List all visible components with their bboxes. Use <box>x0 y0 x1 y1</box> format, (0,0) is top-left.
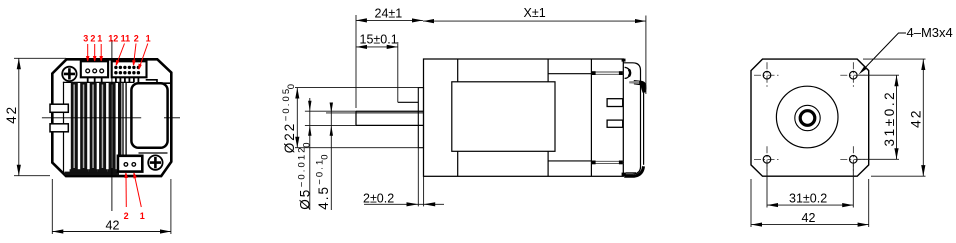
svg-text:42: 42 <box>106 219 120 233</box>
heat sink fins <box>65 82 127 175</box>
dimension 31±0.2 bottom <box>767 164 853 208</box>
motor can top/bottom lines <box>548 73 591 75</box>
dimension 24±1 <box>356 15 423 108</box>
svg-text:2: 2 <box>134 34 139 44</box>
rear cover body <box>623 63 643 174</box>
svg-text:−0.1: −0.1 <box>315 158 326 185</box>
svg-text:Ø22: Ø22 <box>282 122 297 154</box>
svg-text:0: 0 <box>286 84 297 89</box>
boss extension line continuing down <box>417 148 419 207</box>
svg-text:3: 3 <box>83 34 88 44</box>
driver cover rounded rectangle <box>131 83 167 148</box>
band end blocks <box>591 71 622 164</box>
dimension Ø22 0/-0.05 <box>296 88 298 148</box>
svg-text:31±0.2: 31±0.2 <box>882 90 897 147</box>
svg-text:−0.05: −0.05 <box>281 87 292 122</box>
hub circle <box>795 105 820 130</box>
dimension 31±0.2 vertical right <box>858 75 899 159</box>
svg-text:31±0.2: 31±0.2 <box>789 192 827 206</box>
shaft circle Ø5 <box>800 111 815 126</box>
svg-text:42: 42 <box>908 108 924 128</box>
hub diameter extension lines <box>295 88 418 148</box>
heat sink top line <box>64 81 134 83</box>
svg-text:2: 2 <box>124 211 129 221</box>
svg-text:2: 2 <box>90 34 95 44</box>
gearbox rear face line <box>457 59 459 176</box>
svg-text:42: 42 <box>802 211 816 225</box>
centerline vertical <box>111 40 113 211</box>
svg-text:24±1: 24±1 <box>375 7 403 21</box>
dimension X±1 <box>423 16 646 95</box>
svg-text:X±1: X±1 <box>524 6 546 20</box>
dimension 42 vertical (left) <box>14 58 66 175</box>
svg-text:Ø5: Ø5 <box>298 188 313 210</box>
stator lamination rectangle <box>452 82 555 152</box>
left edge tab slots <box>50 104 68 132</box>
connector J2 (12-pin) body <box>112 61 147 77</box>
svg-text:12: 12 <box>108 34 118 44</box>
connector J1 pins 1-3 <box>86 69 104 73</box>
centerline horizontal <box>42 117 180 119</box>
screw top-left <box>62 67 76 81</box>
dimension 42 vertical right <box>863 59 926 176</box>
right view body octagon <box>751 59 869 176</box>
red leaders for 3 2 1 <box>87 44 103 61</box>
motor front flange line <box>547 59 549 176</box>
screw bottom-right <box>148 155 162 169</box>
connector J1 (3-pin) body <box>81 61 108 77</box>
fin highlight slits <box>73 85 112 169</box>
mounting holes with centermarks <box>763 71 857 163</box>
rear cover tabs <box>607 99 623 128</box>
connector J3 pins <box>124 163 136 167</box>
connector J2 pins (2 rows x 6) <box>114 66 140 75</box>
ledge under top-right chamfer <box>147 80 171 83</box>
cover edge junction dots <box>622 59 626 176</box>
pilot boss circle Ø22 <box>776 86 838 148</box>
pilot boss 22mm <box>418 88 423 148</box>
rear cover band lines <box>591 72 623 164</box>
motor body outer rectangle <box>424 59 624 176</box>
svg-text:0: 0 <box>301 143 312 148</box>
connector J3 (2-pin) body <box>118 156 142 172</box>
svg-text:1: 1 <box>146 34 151 44</box>
rear end-bell line <box>590 59 592 176</box>
dimension 2±0.2 <box>364 202 444 206</box>
dimension 15±0.1 <box>356 42 398 102</box>
svg-text:1: 1 <box>140 211 145 221</box>
svg-text:1: 1 <box>97 34 102 44</box>
leader 4-M3x4 <box>862 33 907 72</box>
heat sink left wall line <box>63 82 65 173</box>
dimension Ø5 0/-0.012 <box>308 98 311 210</box>
svg-text:0: 0 <box>320 155 331 160</box>
left view body octagon outline <box>52 59 171 176</box>
cable grommet (black blob) <box>634 80 647 93</box>
rear shaft bump <box>625 67 631 78</box>
svg-text:4.5: 4.5 <box>316 185 331 210</box>
rear cover thick bottom corner <box>624 166 643 176</box>
dimension 42 bottom <box>751 179 869 227</box>
svg-text:2±0.2: 2±0.2 <box>363 191 394 205</box>
shaft outline <box>356 111 424 125</box>
svg-text:11: 11 <box>121 34 131 44</box>
svg-text:−0.012: −0.012 <box>296 145 307 187</box>
svg-text:42: 42 <box>4 105 19 124</box>
shaft extension lines <box>305 111 356 125</box>
red leaders for 11 2 1 <box>116 44 148 70</box>
dimension 4.5 0/-0.1 <box>330 103 333 211</box>
svg-text:15±0.1: 15±0.1 <box>360 33 398 47</box>
keyway line on boss <box>398 101 419 103</box>
shaft flat line <box>356 112 424 114</box>
connector pin legs below headers <box>88 77 139 82</box>
dimension 42 horizontal (bottom) <box>52 179 171 234</box>
svg-text:4–M3x4: 4–M3x4 <box>907 25 953 40</box>
